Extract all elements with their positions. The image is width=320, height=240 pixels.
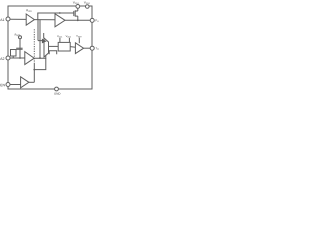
op-amp U4 enable buffer <box>21 77 29 88</box>
wire buffer1 output <box>34 19 55 21</box>
pin VDD2 <box>86 5 90 9</box>
label OUT1 pin <box>96 19 99 22</box>
IC package outline <box>8 6 92 89</box>
resistor RSET bias circle <box>19 36 22 39</box>
label A2 <box>0 57 4 59</box>
wire FET drain from VDD pin <box>77 8 79 11</box>
wire enable control dashed <box>33 28 35 64</box>
label ROD1 buffer <box>26 9 32 11</box>
wire R1 stub <box>12 56 14 58</box>
wire VDD1 stub <box>59 38 61 43</box>
transistor Q1 pass FET <box>73 11 75 16</box>
node J4 <box>39 57 41 59</box>
wire buffer3 output <box>34 56 46 59</box>
op-amp A1 input buffer <box>26 14 34 25</box>
node J3 <box>19 57 21 59</box>
wire VDD2 stub <box>68 38 70 43</box>
wire enable branch to mux <box>34 58 46 69</box>
op-amp U3 output buffer <box>75 43 83 54</box>
capacitor C1 plates <box>16 47 22 49</box>
wire mux select stub <box>43 33 45 38</box>
mux MX1 selector <box>44 38 49 57</box>
wire VDD3 stub <box>78 38 80 44</box>
label GND <box>54 93 60 95</box>
node J1 <box>59 12 61 14</box>
wire to OUT2 pin <box>84 47 91 49</box>
label VDD3 supply <box>76 35 81 37</box>
wire EN buffer output <box>29 81 34 83</box>
wire A1 input <box>10 18 26 20</box>
wire wiper arrow <box>38 39 46 42</box>
pin EN <box>6 83 10 87</box>
label EN <box>0 84 4 86</box>
transistor Q1 source arrow <box>76 10 78 12</box>
wire buffer2 output to OUT1 <box>65 19 90 21</box>
wire box to output buffer <box>70 46 75 49</box>
op-amp U2 second buffer <box>55 14 65 27</box>
node J5 <box>33 69 35 71</box>
wire bias chain <box>19 39 21 58</box>
pin A1 <box>6 17 10 21</box>
resistor R1 input box <box>11 50 17 57</box>
relay coil box <box>49 51 57 54</box>
label OUT2 pin <box>95 47 98 50</box>
resistor RDD divider box <box>58 42 70 51</box>
pin OUT1 <box>90 18 94 22</box>
wire riser to gate rail <box>38 13 74 20</box>
pin GND <box>55 87 59 91</box>
label VDD2 supply <box>66 35 71 37</box>
op-amp A2 input buffer <box>25 52 34 65</box>
label VDD2 pin <box>84 1 90 4</box>
label VDD1 supply <box>57 35 62 37</box>
node J2 <box>77 19 79 21</box>
wire mux output <box>49 45 59 47</box>
wire FET source to output line <box>77 16 79 20</box>
pin VDD1 <box>76 5 80 9</box>
label RSET <box>15 34 20 36</box>
wire A2 input <box>10 57 25 59</box>
label VDD1 pin <box>73 1 79 4</box>
label A1 <box>0 19 4 21</box>
wire drop pair to mux <box>37 20 39 41</box>
pin OUT2 <box>90 46 94 50</box>
wire EN input <box>10 84 21 86</box>
pin A2 <box>6 56 10 60</box>
